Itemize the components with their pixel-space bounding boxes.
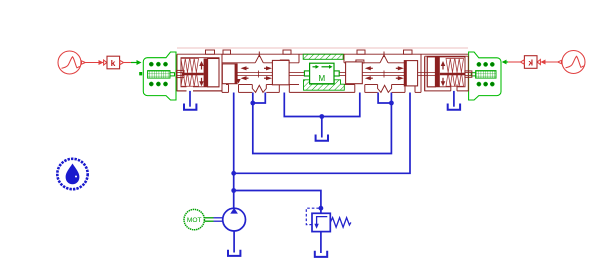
svg-text:k: k	[111, 58, 116, 68]
svg-text:MOT: MOT	[187, 217, 202, 224]
svg-text:M: M	[318, 74, 325, 83]
svg-text:k: k	[528, 58, 533, 68]
